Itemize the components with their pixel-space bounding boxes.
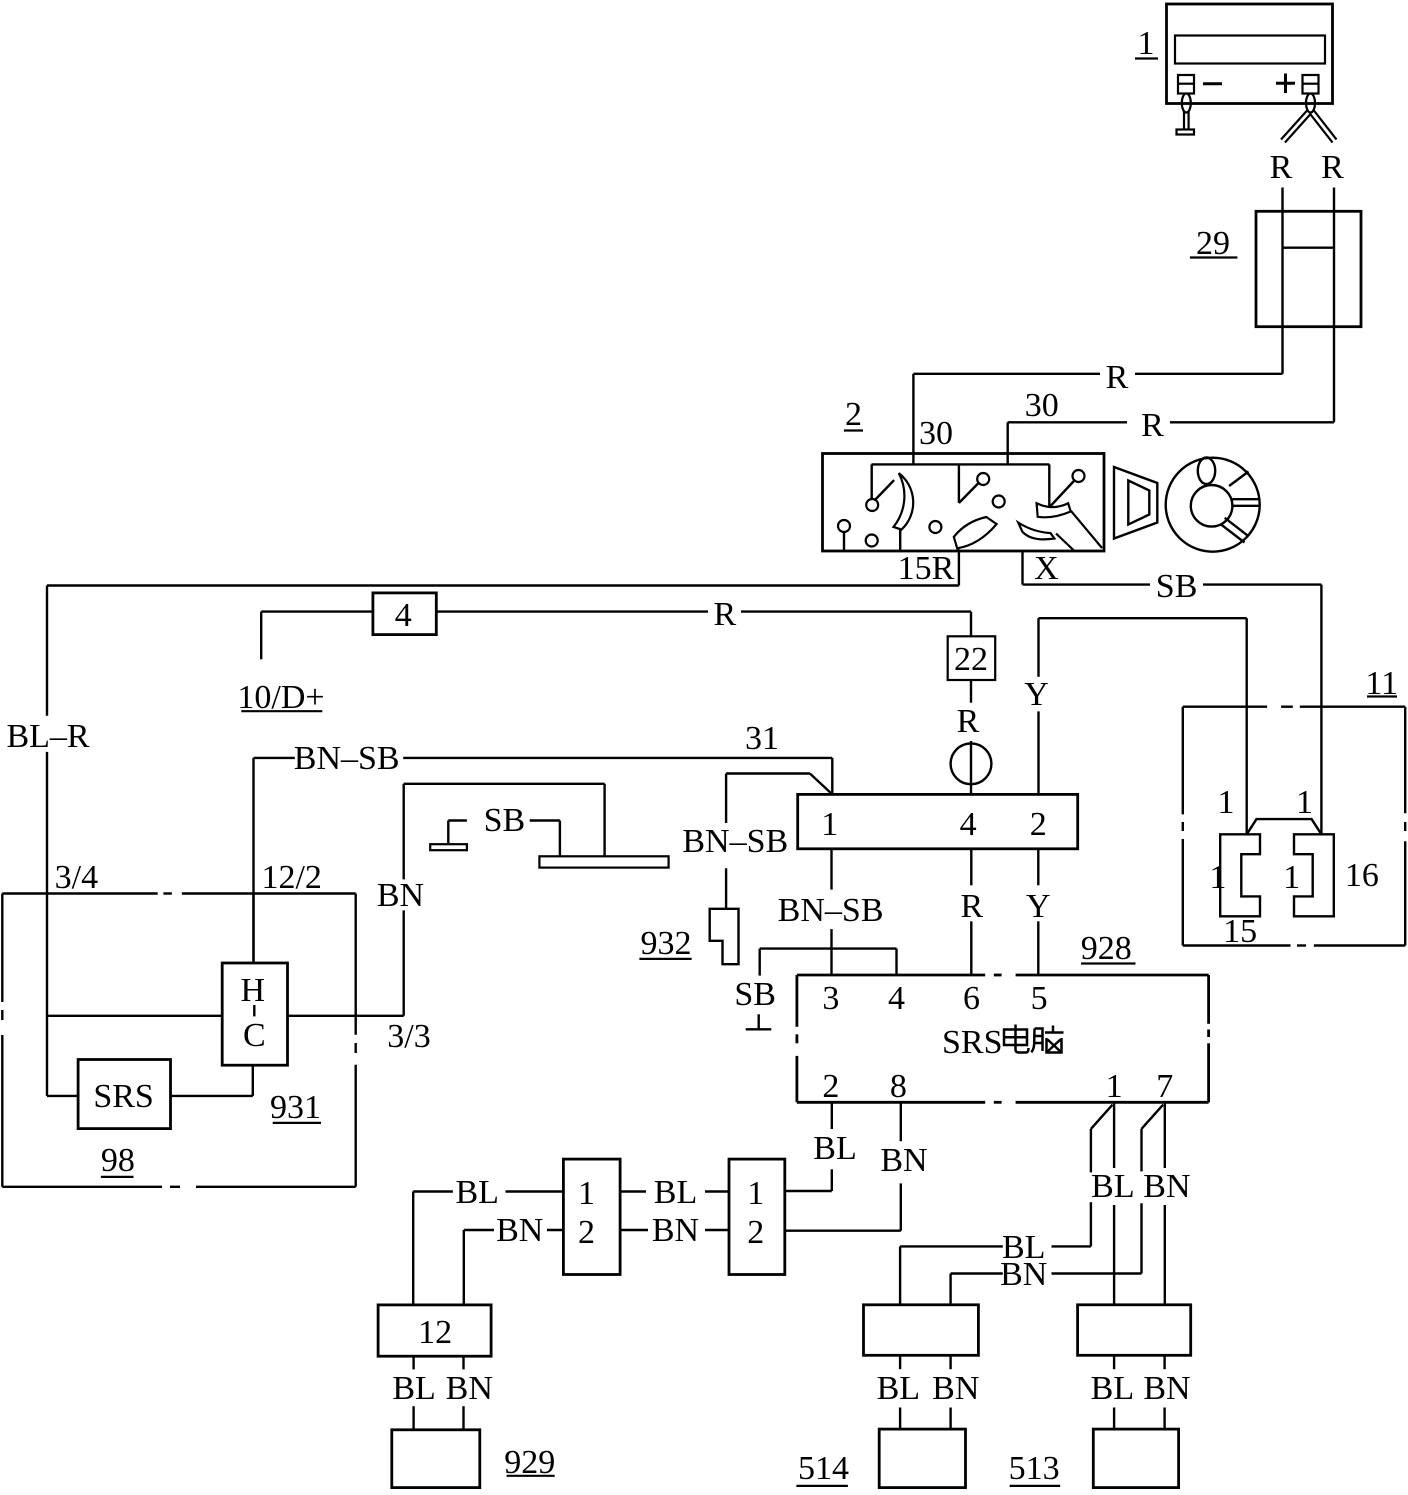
svg-text:BL: BL — [392, 1370, 435, 1407]
fuse 29 internal link — [1283, 246, 1335, 248]
wire R fuse to switch terminal 30 second — [1008, 422, 1334, 464]
connector 22 box — [948, 636, 996, 680]
svg-text:1: 1 — [1296, 784, 1313, 821]
battery positive cable split — [1281, 94, 1337, 143]
clock spring bridge wire — [1247, 819, 1322, 834]
svg-text:R: R — [957, 703, 980, 740]
svg-text:BL: BL — [1091, 1168, 1134, 1205]
svg-text:BN: BN — [652, 1212, 699, 1249]
battery 1 outer body — [1167, 4, 1333, 104]
wire R fuse to switch terminal 30 first — [913, 374, 1282, 465]
clock spring assembly 11 dash-dot box — [1183, 707, 1405, 946]
wire 12/2 into H-C top — [252, 894, 254, 964]
ignition switch right contact set — [1018, 464, 1102, 551]
wire BN-SB connector to SRS pin3 — [830, 849, 832, 975]
svg-text:BN: BN — [377, 877, 424, 914]
contact unit label 98 — [101, 1142, 135, 1179]
fuse 29 box — [1256, 211, 1361, 326]
svg-text:C: C — [243, 1017, 266, 1054]
ignition switch left contact set — [838, 464, 913, 551]
svg-text:31: 31 — [745, 720, 779, 757]
svg-text:15: 15 — [1223, 913, 1257, 950]
svg-text:BN: BN — [1143, 1370, 1190, 1407]
svg-text:BL: BL — [1091, 1370, 1134, 1407]
ignition switch 2 box — [823, 454, 1105, 552]
svg-text:3: 3 — [822, 980, 839, 1017]
terminal 10/D+ stub — [237, 612, 324, 716]
clock spring label 11 — [1365, 665, 1398, 702]
svg-text:SRS: SRS — [93, 1078, 154, 1115]
svg-text:R: R — [1321, 149, 1344, 186]
svg-text:SB: SB — [484, 802, 526, 839]
SRS computer name text — [942, 1024, 1064, 1061]
wire R connector to SRS pin6 — [970, 849, 972, 975]
wire 15R from switch going left — [47, 551, 959, 586]
SB ground stub — [448, 821, 560, 857]
sensor 929 box — [392, 1430, 480, 1488]
connector 16 symbol — [1294, 834, 1334, 916]
wire SRS pin4 to SB ground — [760, 949, 897, 976]
wire battery to fuse left — [1281, 188, 1283, 374]
battery 1 label — [1135, 25, 1158, 62]
wire X / SB from switch to clock spring — [1023, 551, 1322, 834]
svg-text:R: R — [961, 888, 984, 925]
svg-text:BN–SB: BN–SB — [294, 740, 400, 777]
svg-text:BN–SB: BN–SB — [778, 892, 884, 929]
svg-text:BL–R: BL–R — [6, 718, 89, 755]
svg-text:30: 30 — [919, 415, 953, 452]
svg-text:R: R — [1270, 149, 1293, 186]
label 514 — [796, 1450, 849, 1487]
svg-text:932: 932 — [641, 925, 692, 962]
battery negative cable clamp to ground — [1177, 94, 1195, 135]
svg-text:Y: Y — [1026, 888, 1051, 925]
label 929 — [504, 1444, 555, 1481]
wire BL SRS pin2 to connector B — [785, 1102, 832, 1191]
513 stubs — [1114, 1355, 1165, 1429]
small ground bar — [430, 844, 467, 850]
SRS computer pin labels bottom — [822, 1068, 1173, 1105]
svg-text:BN: BN — [496, 1212, 543, 1249]
wire 31 / BN-SB harness to connector pin 1 — [254, 758, 833, 963]
wire BN SRS pin7 twisted pair — [1142, 1102, 1165, 1305]
fuse 4 box — [373, 593, 436, 635]
wire BN connector A to B — [620, 1229, 729, 1231]
svg-text:12: 12 — [418, 1314, 452, 1351]
wire battery to fuse right — [1333, 188, 1335, 423]
svg-text:2: 2 — [845, 396, 862, 433]
svg-text:2: 2 — [747, 1214, 764, 1251]
wire BL-R branch to H-C — [47, 1015, 222, 1017]
label 931 — [270, 1089, 321, 1126]
svg-text:BN–SB: BN–SB — [682, 823, 788, 860]
component 12 stubs — [414, 1356, 464, 1430]
svg-text:12/2: 12/2 — [261, 859, 321, 896]
key symbol — [1114, 467, 1157, 539]
svg-text:BN: BN — [932, 1370, 979, 1407]
connector row box pins 1 4 2 — [798, 794, 1078, 848]
wire BL connector A to B — [620, 1190, 729, 1192]
wire BN branch to 514 connector — [951, 1274, 1142, 1305]
svg-text:SB: SB — [1156, 568, 1198, 605]
svg-text:3/3: 3/3 — [387, 1018, 430, 1055]
svg-text:7: 7 — [1156, 1068, 1173, 1105]
SRS computer pin labels top — [822, 980, 1047, 1017]
connector 932 label — [639, 925, 691, 962]
H-C unit box — [222, 963, 287, 1065]
svg-text:R: R — [1106, 359, 1129, 396]
svg-text:1: 1 — [747, 1175, 764, 1212]
svg-text:BN: BN — [446, 1370, 493, 1407]
connector 15 symbol — [1220, 834, 1260, 916]
wire BL 12 to connector A — [413, 1192, 563, 1305]
connector box B — [729, 1159, 785, 1274]
svg-text:H: H — [241, 972, 266, 1009]
wire BL-R down left side — [46, 586, 48, 1096]
svg-text:X: X — [1034, 550, 1059, 587]
svg-text:Y: Y — [1024, 676, 1049, 713]
fuse 29 label — [1190, 225, 1238, 262]
svg-text:1: 1 — [821, 806, 838, 843]
svg-text:SRS: SRS — [942, 1024, 1003, 1061]
wire to SRS igniter — [47, 1095, 78, 1097]
svg-text:4: 4 — [888, 980, 905, 1017]
svg-text:514: 514 — [798, 1450, 849, 1487]
svg-text:1: 1 — [578, 1175, 595, 1212]
wire 3/3 BN from H-C to ground bar — [288, 784, 605, 1016]
svg-text:BL: BL — [455, 1174, 498, 1211]
sensor 513 box — [1093, 1429, 1178, 1488]
svg-text:R: R — [1141, 407, 1164, 444]
wire R from 22 to lamp — [970, 680, 972, 794]
svg-text:30: 30 — [1025, 387, 1059, 424]
svg-text:931: 931 — [270, 1089, 321, 1126]
wire BN-SB branch to 932 — [726, 774, 832, 909]
connector box for 514 — [864, 1305, 979, 1356]
wire BL SRS pin1 twisted pair — [1091, 1102, 1114, 1305]
svg-text:16: 16 — [1345, 857, 1379, 894]
clock spring pin labels — [1209, 784, 1379, 950]
svg-text:1: 1 — [1283, 859, 1300, 896]
connector 932 symbol — [710, 909, 739, 964]
svg-text:2: 2 — [822, 1068, 839, 1105]
lamp circle symbol — [951, 743, 992, 784]
wire BN 12 to connector A — [464, 1230, 564, 1305]
main ground bar — [539, 856, 668, 867]
svg-text:2: 2 — [1030, 806, 1047, 843]
label 513 — [1009, 1450, 1061, 1487]
svg-text:5: 5 — [1031, 980, 1048, 1017]
wire BN SRS pin8 to connector B — [785, 1102, 901, 1230]
svg-text:98: 98 — [101, 1142, 135, 1179]
contact unit 98 dash-dot box — [2, 894, 355, 1187]
wire SRS igniter to H-C — [171, 1065, 253, 1096]
connector box A — [563, 1159, 620, 1274]
ignition switch internal bus — [872, 463, 1050, 465]
svg-text:4: 4 — [395, 597, 412, 634]
svg-text:1: 1 — [1218, 784, 1235, 821]
SRS igniter box — [78, 1060, 170, 1129]
svg-text:1: 1 — [1209, 859, 1226, 896]
steering wheel symbol — [1166, 458, 1260, 552]
svg-text:BN: BN — [1143, 1168, 1190, 1205]
svg-text:SB: SB — [734, 976, 776, 1013]
svg-text:6: 6 — [963, 980, 980, 1017]
ground symbol below SB — [746, 1014, 772, 1029]
svg-text:BL: BL — [813, 1130, 856, 1167]
svg-text:1: 1 — [1138, 25, 1155, 62]
wire BL branch to 514 connector — [900, 1246, 1091, 1304]
SRS computer 928 box dash-dot border — [797, 975, 1209, 1102]
svg-text:928: 928 — [1081, 930, 1132, 967]
svg-text:8: 8 — [890, 1068, 907, 1105]
connector box for 513 — [1078, 1305, 1191, 1356]
svg-text:4: 4 — [960, 806, 977, 843]
svg-text:3/4: 3/4 — [55, 859, 98, 896]
svg-text:BN: BN — [880, 1142, 927, 1179]
svg-text:2: 2 — [578, 1214, 595, 1251]
wire Y from connector pin2 to clock spring 11 — [1039, 618, 1247, 834]
battery negative terminal — [1178, 75, 1222, 94]
ignition switch 2 label — [844, 396, 863, 433]
battery positive terminal — [1276, 74, 1319, 94]
component 12 box — [378, 1305, 491, 1356]
sensor 514 box — [879, 1429, 965, 1488]
svg-text:22: 22 — [954, 641, 988, 678]
svg-text:R: R — [714, 596, 737, 633]
svg-text:1: 1 — [1106, 1068, 1123, 1105]
ignition switch middle contact set — [929, 464, 1004, 551]
svg-text:BL: BL — [654, 1174, 697, 1211]
SRS computer label 928 — [1081, 930, 1136, 967]
svg-text:15R: 15R — [898, 550, 955, 587]
wire R accessory feed to fuse 4 — [261, 612, 971, 637]
svg-text:BN: BN — [1000, 1256, 1047, 1293]
svg-text:513: 513 — [1009, 1450, 1060, 1487]
514 stubs — [900, 1355, 951, 1429]
svg-text:BL: BL — [877, 1370, 920, 1407]
wire Y connector to SRS pin5 — [1037, 849, 1039, 975]
